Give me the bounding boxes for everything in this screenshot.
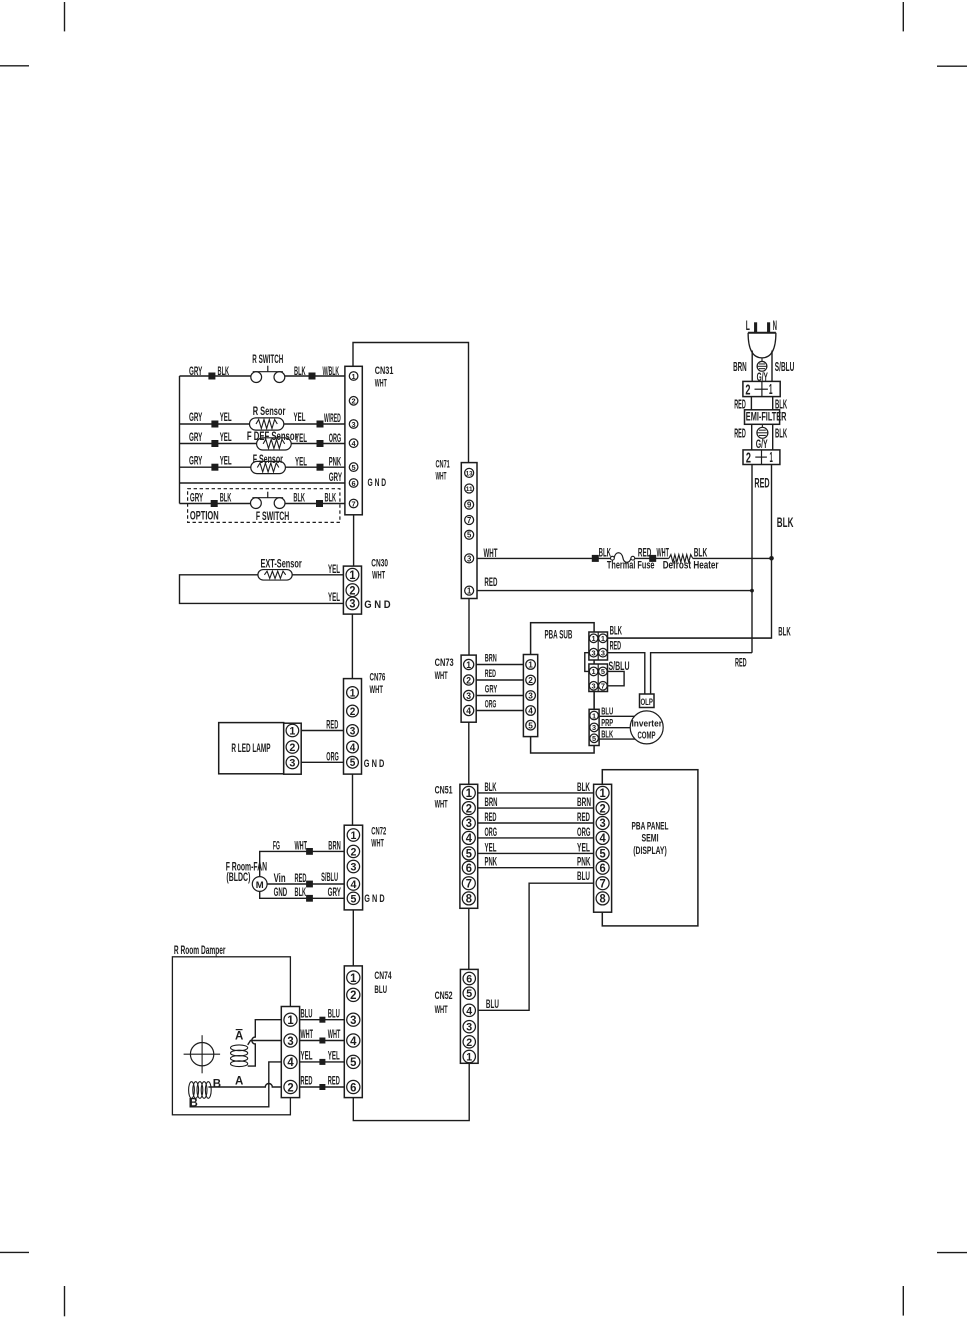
svg-text:4: 4 bbox=[466, 1005, 473, 1017]
wire damper pin2 to coil B right bbox=[208, 1084, 281, 1088]
wire CN73 pin3 to PBA SUB GRY bbox=[476, 695, 523, 697]
svg-text:3: 3 bbox=[592, 648, 596, 657]
wire fuse to heater bbox=[635, 557, 669, 559]
svg-text:R SWITCH: R SWITCH bbox=[252, 354, 283, 366]
svg-text:RED: RED bbox=[638, 546, 651, 560]
svg-text:GRY: GRY bbox=[329, 470, 343, 484]
wire Vin fan to CN72 pin4 bbox=[267, 883, 344, 885]
wire BLU damper to CN74 pin3 bbox=[300, 1019, 345, 1021]
svg-text:BRN: BRN bbox=[733, 360, 747, 374]
wire GND bus left bbox=[179, 376, 181, 504]
svg-text:2: 2 bbox=[287, 1080, 294, 1094]
svg-text:CN72: CN72 bbox=[371, 825, 386, 837]
wire R-sensor row to CN31 pin3 bbox=[180, 423, 250, 425]
wire BLK terminal to EMI bbox=[772, 397, 774, 410]
svg-text:4: 4 bbox=[600, 832, 607, 845]
svg-text:2: 2 bbox=[289, 742, 295, 754]
wire RED damper to CN74 pin6 bbox=[300, 1086, 345, 1088]
svg-text:YEL: YEL bbox=[485, 840, 497, 854]
svg-text:PRP: PRP bbox=[601, 718, 613, 729]
wire RED below EMI bbox=[751, 424, 753, 450]
svg-text:ORG: ORG bbox=[485, 825, 498, 839]
junction square BLK-W/BLK bbox=[309, 373, 316, 380]
wire CN52 pin1 to CN74 pin6 bottom bbox=[353, 1063, 469, 1120]
wire CN30 to CN76 bbox=[351, 614, 353, 679]
wire RED terminal to EMI bbox=[750, 397, 752, 410]
motor F Room-FAN (BLDC) bbox=[252, 877, 267, 892]
svg-text:1: 1 bbox=[352, 372, 357, 381]
connector R LED LAMP bbox=[284, 723, 302, 774]
junction square row3 left bbox=[211, 421, 218, 428]
svg-text:BLK: BLK bbox=[218, 364, 230, 378]
svg-text:1: 1 bbox=[467, 586, 472, 595]
svg-text:BLK: BLK bbox=[577, 780, 590, 794]
svg-text:Defrost Heater: Defrost Heater bbox=[663, 560, 719, 572]
junction square row7 left bbox=[211, 500, 218, 507]
wire top rail CN31 to CN71 bbox=[353, 343, 469, 463]
resistor R Sensor bbox=[250, 418, 284, 430]
svg-text:7: 7 bbox=[352, 499, 356, 508]
svg-text:S/BLU: S/BLU bbox=[321, 870, 338, 884]
svg-text:1: 1 bbox=[528, 660, 533, 670]
svg-text:1: 1 bbox=[350, 830, 356, 842]
svg-text:PNK: PNK bbox=[329, 454, 342, 468]
svg-text:CN74: CN74 bbox=[374, 970, 391, 982]
svg-text:F DEF Sensor: F DEF Sensor bbox=[247, 431, 298, 443]
junction dot RED bus bbox=[750, 589, 754, 593]
svg-text:A: A bbox=[235, 1031, 243, 1043]
svg-text:3: 3 bbox=[592, 723, 596, 732]
svg-text:2: 2 bbox=[528, 675, 533, 685]
svg-text:L: L bbox=[746, 318, 750, 333]
wire BLK PBA SUB pin1 bbox=[608, 637, 772, 639]
connector CN71 bbox=[461, 463, 477, 599]
svg-text:BRN: BRN bbox=[328, 838, 341, 852]
junction square GRY-BLK bbox=[208, 373, 215, 380]
option dashed box bbox=[188, 489, 340, 523]
svg-text:BLU: BLU bbox=[486, 997, 499, 1011]
svg-text:4: 4 bbox=[466, 832, 473, 845]
svg-text:WHT: WHT bbox=[435, 799, 448, 811]
plug prong N bbox=[767, 322, 770, 332]
svg-text:4: 4 bbox=[350, 1034, 357, 1048]
svg-text:1: 1 bbox=[287, 1013, 294, 1027]
svg-text:1: 1 bbox=[601, 634, 606, 643]
wire BLK main vertical bbox=[608, 465, 772, 639]
svg-text:WHT: WHT bbox=[328, 1027, 341, 1041]
svg-text:(BLDC): (BLDC) bbox=[226, 872, 250, 884]
connector PBA SUB S/BLU block bbox=[589, 664, 608, 692]
svg-text:RED: RED bbox=[735, 655, 747, 669]
svg-text:YEL: YEL bbox=[301, 1049, 313, 1063]
junction square RED-WHT bbox=[649, 555, 656, 562]
svg-text:G N D: G N D bbox=[368, 477, 387, 489]
svg-text:RED: RED bbox=[295, 871, 307, 885]
svg-text:5: 5 bbox=[600, 848, 607, 861]
wire PNK CN51 to display bbox=[478, 867, 594, 869]
junction square row4 left bbox=[211, 440, 218, 447]
connector CN52 bbox=[460, 969, 478, 1063]
svg-text:3: 3 bbox=[467, 554, 472, 563]
svg-text:YEL: YEL bbox=[220, 454, 232, 468]
svg-text:ORG: ORG bbox=[485, 699, 497, 711]
svg-text:1: 1 bbox=[592, 711, 597, 720]
wire ORG CN51 to display bbox=[478, 837, 594, 839]
page registration mark bottom-right bbox=[937, 1252, 967, 1254]
terminal block 2-1 upper bbox=[743, 381, 780, 396]
wire S/BLU loop bbox=[608, 671, 625, 685]
svg-text:5: 5 bbox=[350, 1055, 357, 1069]
svg-text:BLK: BLK bbox=[599, 546, 611, 560]
wire GRY to CN31 pin6 bbox=[180, 482, 345, 484]
wire BRN CN51 to display bbox=[478, 807, 594, 809]
resistor F Sensor bbox=[251, 461, 286, 473]
svg-text:B: B bbox=[213, 1078, 221, 1090]
svg-text:PNK: PNK bbox=[485, 855, 498, 869]
svg-text:3: 3 bbox=[350, 1013, 357, 1027]
junction square row5 right bbox=[317, 464, 324, 471]
svg-text:GRY: GRY bbox=[189, 430, 203, 444]
wire FG fan to CN72 pin2 bbox=[260, 851, 345, 876]
svg-text:G/Y: G/Y bbox=[756, 437, 768, 451]
svg-text:GRY: GRY bbox=[189, 364, 203, 378]
svg-text:5: 5 bbox=[350, 757, 356, 769]
svg-text:8: 8 bbox=[466, 893, 473, 906]
svg-text:BLU: BLU bbox=[301, 1006, 313, 1020]
wire damper pin1 to coil A bottom bbox=[248, 1020, 282, 1066]
svg-text:6: 6 bbox=[466, 974, 472, 986]
connector PBA SUB AC in bbox=[589, 632, 608, 660]
wire RED lamp to CN76 pin3 bbox=[301, 730, 343, 732]
svg-text:2: 2 bbox=[466, 675, 471, 685]
svg-text:5: 5 bbox=[466, 848, 473, 861]
svg-text:BLK: BLK bbox=[778, 625, 790, 639]
connector CN73 bbox=[461, 655, 476, 722]
connector R Room Damper bbox=[281, 1007, 299, 1098]
svg-text:RED: RED bbox=[485, 668, 496, 680]
svg-text:G N D: G N D bbox=[364, 758, 385, 770]
svg-text:2: 2 bbox=[600, 802, 607, 815]
svg-text:N: N bbox=[773, 318, 777, 333]
svg-text:RED: RED bbox=[734, 426, 746, 440]
switch R SWITCH bbox=[251, 372, 262, 383]
wire F-DEF-sensor row to CN31 pin4 bbox=[180, 443, 257, 445]
svg-text:BRN: BRN bbox=[485, 653, 497, 665]
svg-text:G N D: G N D bbox=[364, 599, 391, 611]
wire RED PBA SUB pin3 to OLP left bbox=[608, 653, 645, 694]
PBA SUB box bbox=[531, 623, 595, 753]
svg-text:G N D: G N D bbox=[364, 893, 385, 905]
svg-text:WHT: WHT bbox=[371, 838, 384, 850]
PBA PANEL SEMI box bbox=[602, 770, 698, 926]
svg-text:7: 7 bbox=[467, 516, 472, 525]
wire CN71 to CN73 bbox=[468, 599, 470, 656]
svg-text:CN52: CN52 bbox=[435, 990, 453, 1002]
svg-text:PBA PANEL: PBA PANEL bbox=[632, 821, 669, 833]
junction square Vin bbox=[306, 881, 313, 888]
svg-text:RED: RED bbox=[326, 718, 338, 732]
resistor F DEF Sensor bbox=[257, 438, 292, 450]
svg-text:BRN: BRN bbox=[577, 795, 591, 809]
svg-text:YEL: YEL bbox=[220, 410, 232, 424]
svg-text:1: 1 bbox=[466, 787, 473, 800]
coil B bbox=[189, 1082, 195, 1099]
svg-text:BLK: BLK bbox=[601, 729, 613, 740]
svg-text:3: 3 bbox=[600, 817, 607, 830]
svg-text:RED: RED bbox=[328, 1074, 340, 1088]
svg-text:1: 1 bbox=[349, 570, 356, 582]
svg-text:3: 3 bbox=[466, 1022, 472, 1034]
svg-text:5: 5 bbox=[601, 667, 606, 676]
svg-text:5: 5 bbox=[528, 720, 533, 730]
svg-text:S/BLU: S/BLU bbox=[775, 360, 795, 374]
svg-text:2: 2 bbox=[350, 846, 356, 858]
svg-text:BLK: BLK bbox=[775, 426, 787, 440]
svg-text:WHT: WHT bbox=[372, 570, 385, 582]
svg-text:GND: GND bbox=[274, 885, 288, 899]
svg-text:3: 3 bbox=[349, 599, 355, 611]
connector CN74 bbox=[344, 966, 362, 1098]
svg-text:RED: RED bbox=[754, 476, 769, 491]
svg-text:3: 3 bbox=[528, 691, 533, 701]
page registration mark top-right bbox=[902, 2, 904, 31]
svg-text:1: 1 bbox=[600, 787, 607, 800]
ground symbol G/Y lower bbox=[761, 424, 763, 427]
svg-text:SEMI: SEMI bbox=[642, 833, 659, 845]
svg-text:2: 2 bbox=[745, 382, 750, 398]
wire PRP to compressor bbox=[599, 727, 630, 729]
R Room Damper box bbox=[172, 957, 290, 1115]
svg-text:BLK: BLK bbox=[694, 546, 708, 560]
svg-text:7: 7 bbox=[600, 877, 606, 890]
svg-text:F SWITCH: F SWITCH bbox=[256, 511, 289, 523]
svg-text:WHT: WHT bbox=[484, 546, 498, 560]
junction dot BLK bus bbox=[769, 556, 774, 561]
svg-text:CN31: CN31 bbox=[375, 365, 394, 377]
connector CN76 bbox=[344, 679, 362, 775]
svg-text:4: 4 bbox=[352, 439, 357, 448]
svg-text:CN30: CN30 bbox=[371, 558, 388, 570]
svg-text:Vin: Vin bbox=[274, 871, 286, 885]
wire BLU to compressor bbox=[599, 715, 634, 717]
svg-text:BLU: BLU bbox=[601, 707, 613, 718]
svg-text:CN71: CN71 bbox=[436, 458, 450, 470]
connector CN51 bbox=[460, 784, 478, 908]
wire YEL CN51 to display bbox=[478, 852, 594, 854]
svg-text:ORG: ORG bbox=[326, 749, 339, 763]
svg-text:BLK: BLK bbox=[295, 885, 307, 899]
svg-text:BLK: BLK bbox=[610, 624, 622, 638]
bracket PBA SUB right blocks bbox=[585, 653, 589, 672]
junction square row7 right bbox=[316, 500, 323, 507]
wire CN31 to CN30 bbox=[353, 515, 355, 566]
svg-text:GRY: GRY bbox=[485, 684, 498, 696]
svg-text:8: 8 bbox=[600, 893, 607, 906]
wire BLK CN51 to display bbox=[478, 792, 594, 794]
page registration mark bottom-left bbox=[0, 1251, 29, 1253]
connector CN72 bbox=[344, 825, 362, 910]
ground symbol G/Y upper bbox=[761, 358, 763, 362]
svg-text:2: 2 bbox=[350, 706, 356, 718]
svg-text:PBA SUB: PBA SUB bbox=[545, 630, 573, 642]
page registration mark top-left bbox=[64, 2, 66, 31]
svg-text:WHT: WHT bbox=[301, 1027, 314, 1041]
junction square row4 right bbox=[317, 440, 324, 447]
svg-text:6: 6 bbox=[466, 862, 473, 875]
wire damper pin3 to coil A top bbox=[248, 1041, 282, 1045]
thermal fuse symbol bbox=[611, 556, 615, 560]
svg-text:W/BLK: W/BLK bbox=[323, 364, 340, 378]
svg-text:4: 4 bbox=[528, 706, 533, 716]
svg-text:RED: RED bbox=[485, 810, 497, 824]
svg-text:EXT-Sensor: EXT-Sensor bbox=[261, 559, 303, 571]
svg-text:6: 6 bbox=[350, 1080, 357, 1094]
svg-text:OLP: OLP bbox=[640, 697, 653, 708]
svg-text:YEL: YEL bbox=[295, 431, 307, 445]
svg-text:1: 1 bbox=[592, 634, 597, 643]
junction square FG bbox=[306, 848, 313, 855]
svg-text:1: 1 bbox=[769, 382, 773, 398]
connector CN31 bbox=[345, 366, 362, 515]
wire WHT damper to CN74 pin4 bbox=[300, 1040, 345, 1042]
wire CN51 to CN52 bbox=[468, 908, 470, 969]
plug prong L bbox=[754, 322, 757, 332]
junction square WHT-BLK bbox=[592, 555, 599, 562]
wire CN76 to CN72 bbox=[352, 774, 354, 825]
svg-text:2: 2 bbox=[349, 585, 355, 597]
svg-text:2: 2 bbox=[466, 1037, 472, 1049]
svg-text:4: 4 bbox=[466, 706, 472, 716]
wire F-switch option row to CN31 pin7 bbox=[180, 503, 251, 505]
svg-text:YEL: YEL bbox=[220, 430, 232, 444]
svg-text:RED: RED bbox=[301, 1074, 313, 1088]
connector PBA SUB comp bbox=[589, 709, 599, 745]
svg-text:R Room Damper: R Room Damper bbox=[174, 945, 226, 957]
svg-text:YEL: YEL bbox=[294, 410, 306, 424]
svg-text:13: 13 bbox=[466, 470, 473, 477]
wire RED CN71 pin1 bbox=[477, 590, 752, 592]
svg-text:7: 7 bbox=[466, 877, 472, 890]
svg-text:RED: RED bbox=[577, 810, 590, 824]
svg-text:6: 6 bbox=[352, 479, 356, 488]
svg-text:BLK: BLK bbox=[220, 490, 232, 504]
OLP box bbox=[640, 694, 655, 708]
junction square fan GND bbox=[306, 895, 313, 902]
svg-text:WHT: WHT bbox=[657, 546, 670, 560]
svg-text:A: A bbox=[235, 1075, 243, 1087]
wire GND fan to CN72 pin5 bbox=[260, 891, 345, 898]
svg-text:WHT: WHT bbox=[370, 684, 384, 696]
connector CN30 bbox=[343, 566, 361, 614]
svg-text:WHT: WHT bbox=[295, 838, 308, 852]
svg-text:BRN: BRN bbox=[485, 795, 498, 809]
svg-text:CN76: CN76 bbox=[370, 672, 386, 684]
switch F SWITCH bbox=[251, 498, 262, 509]
connector PBA SUB left bbox=[523, 655, 537, 737]
svg-text:1: 1 bbox=[466, 660, 471, 670]
svg-text:WHT: WHT bbox=[375, 377, 387, 389]
svg-text:OPTION: OPTION bbox=[190, 511, 219, 523]
wire PBA right edge between blocks bbox=[593, 692, 595, 710]
svg-text:11: 11 bbox=[466, 486, 473, 493]
wire F-sensor row to CN31 pin5 bbox=[180, 466, 251, 468]
svg-text:5: 5 bbox=[467, 531, 472, 540]
svg-text:3: 3 bbox=[352, 420, 356, 429]
wire CN73 pin4 to PBA SUB ORG bbox=[476, 710, 523, 712]
EMI-FILTER box bbox=[745, 410, 780, 425]
svg-text:ORG: ORG bbox=[577, 825, 591, 839]
svg-text:1: 1 bbox=[289, 726, 295, 738]
svg-text:COMP: COMP bbox=[637, 731, 655, 742]
wire RED CN51 to display bbox=[478, 822, 594, 824]
svg-text:3: 3 bbox=[287, 1034, 294, 1048]
svg-text:BLK: BLK bbox=[293, 490, 305, 504]
svg-text:1: 1 bbox=[466, 1052, 472, 1064]
junction square row5 left bbox=[211, 464, 218, 471]
power plug body bbox=[748, 332, 776, 334]
svg-text:YEL: YEL bbox=[328, 562, 340, 576]
svg-text:2: 2 bbox=[352, 397, 356, 406]
wire BLK below EMI bbox=[772, 424, 774, 450]
junction square row3 right bbox=[317, 421, 324, 428]
svg-text:BLK: BLK bbox=[325, 490, 337, 504]
svg-text:RED: RED bbox=[610, 639, 622, 653]
wire EXT-sensor to CN30 pin1 bbox=[292, 574, 343, 576]
svg-text:5: 5 bbox=[466, 988, 472, 1000]
svg-text:2: 2 bbox=[466, 802, 473, 815]
svg-text:GRY: GRY bbox=[189, 410, 203, 424]
svg-text:9: 9 bbox=[467, 500, 472, 509]
svg-text:F Sensor: F Sensor bbox=[253, 454, 284, 466]
svg-text:BLU: BLU bbox=[577, 869, 590, 883]
svg-text:3: 3 bbox=[289, 758, 295, 770]
svg-text:6: 6 bbox=[600, 862, 607, 875]
terminal block 2-1 lower bbox=[743, 450, 780, 465]
svg-text:5: 5 bbox=[352, 463, 357, 472]
svg-text:4: 4 bbox=[350, 879, 357, 891]
svg-text:R LED LAMP: R LED LAMP bbox=[231, 743, 270, 755]
svg-text:3: 3 bbox=[350, 725, 356, 737]
svg-text:W/RED: W/RED bbox=[324, 411, 341, 425]
svg-text:ORG: ORG bbox=[329, 431, 342, 445]
svg-text:1: 1 bbox=[770, 450, 773, 466]
svg-text:GRY: GRY bbox=[328, 885, 342, 899]
svg-text:Thermal Fuse: Thermal Fuse bbox=[607, 560, 655, 572]
svg-text:R Sensor: R Sensor bbox=[253, 406, 286, 418]
svg-text:7: 7 bbox=[601, 682, 605, 691]
svg-text:1: 1 bbox=[350, 971, 357, 985]
wire damper pin4 to coil B left bbox=[190, 1062, 281, 1107]
svg-text:PNK: PNK bbox=[577, 855, 591, 869]
wire EXT-sensor return loop to CN30 pin3 bbox=[180, 575, 344, 604]
svg-text:3: 3 bbox=[466, 691, 471, 701]
wire YEL damper to CN74 pin5 bbox=[300, 1061, 345, 1063]
svg-text:YEL: YEL bbox=[295, 454, 307, 468]
stepper motor symbol bbox=[190, 1043, 213, 1066]
resistor Defrost Heater bbox=[669, 555, 693, 563]
wire CN73 pin1 to PBA SUB BRN bbox=[476, 664, 523, 666]
svg-text:CN73: CN73 bbox=[435, 657, 454, 669]
wire BRN plug to terminal bbox=[751, 351, 753, 382]
svg-text:YEL: YEL bbox=[328, 590, 340, 604]
svg-text:YEL: YEL bbox=[577, 840, 590, 854]
svg-text:BLU: BLU bbox=[328, 1006, 340, 1020]
svg-text:BLK: BLK bbox=[777, 515, 794, 530]
svg-text:YEL: YEL bbox=[328, 1049, 340, 1063]
coil A bbox=[231, 1045, 248, 1051]
resistor EXT-Sensor bbox=[258, 570, 292, 581]
wire BLK to compressor bbox=[599, 738, 635, 740]
